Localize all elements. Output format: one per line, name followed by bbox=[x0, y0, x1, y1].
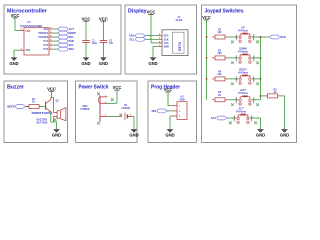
svg-text:MLT-5030: MLT-5030 bbox=[37, 122, 48, 125]
svg-text:SCL: SCL bbox=[129, 37, 135, 41]
svg-text:20k: 20k bbox=[218, 73, 223, 76]
svg-text:Buzzer: Buzzer bbox=[7, 85, 24, 91]
svg-text:PC1: PC1 bbox=[44, 40, 49, 43]
svg-text:GND: GND bbox=[256, 133, 265, 138]
svg-text:PD6/PA1: PD6/PA1 bbox=[38, 32, 48, 35]
svg-text:SDA: SDA bbox=[129, 34, 135, 38]
svg-text:GND: GND bbox=[52, 133, 61, 138]
svg-text:VCC: VCC bbox=[11, 13, 20, 18]
svg-text:DIO: DIO bbox=[69, 35, 74, 39]
svg-text:6*6*6mm: 6*6*6mm bbox=[238, 92, 248, 95]
svg-text:VSS: VSS bbox=[25, 49, 30, 52]
svg-text:BEEP: BEEP bbox=[69, 31, 77, 35]
svg-text:GND: GND bbox=[129, 133, 138, 138]
svg-text:10u: 10u bbox=[109, 42, 114, 45]
svg-text:VCC: VCC bbox=[164, 87, 173, 92]
svg-text:BEEP: BEEP bbox=[7, 105, 15, 109]
svg-text:SDA: SDA bbox=[164, 35, 169, 38]
svg-text:GND: GND bbox=[164, 46, 170, 49]
svg-text:100n: 100n bbox=[92, 42, 98, 45]
svg-text:GND: GND bbox=[165, 133, 174, 138]
svg-text:GND: GND bbox=[280, 133, 289, 138]
svg-text:PAD: PAD bbox=[69, 39, 75, 43]
svg-text:6*6*6mm: 6*6*6mm bbox=[236, 110, 246, 113]
svg-text:PA2: PA2 bbox=[44, 28, 49, 31]
svg-text:3k9: 3k9 bbox=[218, 52, 223, 55]
svg-text:PC2: PC2 bbox=[44, 44, 49, 47]
svg-text:PAD: PAD bbox=[280, 35, 286, 39]
svg-text:SDA: SDA bbox=[69, 47, 75, 51]
svg-text:6*6*6mm: 6*6*6mm bbox=[238, 71, 248, 74]
svg-text:VCC: VCC bbox=[164, 42, 169, 45]
svg-text:6*6*6mm: 6*6*6mm bbox=[238, 29, 248, 32]
svg-text:ACT: ACT bbox=[69, 27, 75, 31]
svg-text:VCC: VCC bbox=[147, 10, 156, 15]
svg-text:VCC: VCC bbox=[202, 15, 211, 20]
svg-text:POWER: POWER bbox=[80, 108, 89, 111]
svg-text:2k2: 2k2 bbox=[218, 31, 223, 34]
svg-text:PC4: PC4 bbox=[44, 48, 49, 51]
svg-text:OLED: OLED bbox=[178, 42, 182, 52]
svg-text:DIO: DIO bbox=[152, 109, 157, 113]
svg-text:PD1/PA0: PD1/PA0 bbox=[38, 36, 48, 39]
svg-text:VCC: VCC bbox=[82, 16, 91, 21]
svg-text:SCL: SCL bbox=[69, 43, 75, 47]
svg-text:VCC: VCC bbox=[99, 16, 108, 21]
svg-text:VCC: VCC bbox=[113, 85, 122, 90]
svg-text:VCC: VCC bbox=[47, 86, 56, 91]
svg-text:Joypad Switches: Joypad Switches bbox=[205, 9, 244, 15]
svg-text:MMBT3904: MMBT3904 bbox=[32, 112, 54, 115]
svg-text:GND: GND bbox=[148, 61, 157, 66]
svg-text:GND: GND bbox=[81, 61, 90, 66]
svg-text:OLED: OLED bbox=[176, 19, 183, 22]
svg-text:ACT: ACT bbox=[211, 116, 217, 120]
svg-text:GND: GND bbox=[99, 61, 108, 66]
svg-text:CR2032: CR2032 bbox=[121, 107, 130, 110]
svg-text:SCK: SCK bbox=[164, 38, 169, 41]
svg-text:GND: GND bbox=[9, 61, 18, 66]
svg-text:Display: Display bbox=[128, 9, 147, 15]
svg-text:Power Switch: Power Switch bbox=[79, 85, 109, 91]
svg-text:VDD: VDD bbox=[25, 30, 30, 33]
svg-text:CH32V003J4M6: CH32V003J4M6 bbox=[20, 25, 43, 28]
svg-text:GND: GND bbox=[179, 98, 185, 101]
svg-text:6*6*6mm: 6*6*6mm bbox=[238, 50, 248, 53]
